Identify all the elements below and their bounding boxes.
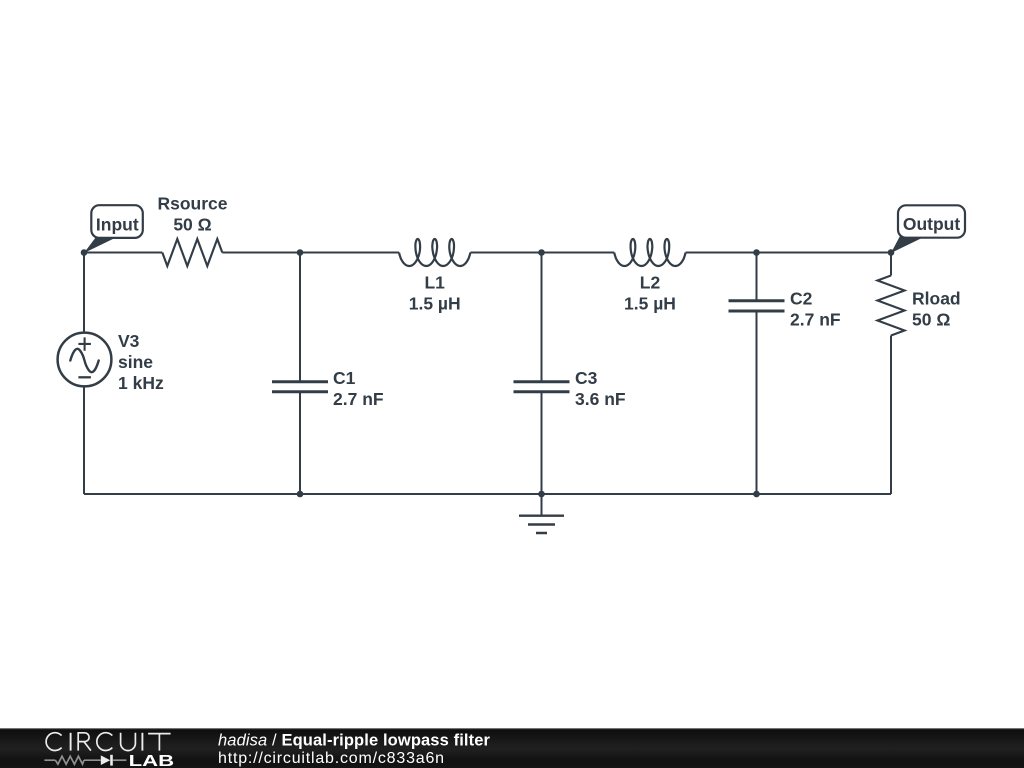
logo symbol wire right <box>113 759 127 761</box>
V3 minus sign <box>78 376 91 378</box>
logo letter U <box>121 733 136 751</box>
capacitor C2 bottom lead <box>756 311 758 494</box>
capacitor C2 top lead <box>756 253 758 301</box>
capacitor C1 bottom lead <box>299 392 301 494</box>
logo letter I2 <box>141 733 143 751</box>
capacitor C3 plates <box>514 382 570 392</box>
ground bars <box>519 516 564 533</box>
resistor Rsource <box>162 239 222 266</box>
node dot input <box>81 249 88 256</box>
wire: L2 to output node <box>686 252 891 254</box>
wire bottom rail <box>84 493 891 495</box>
wire: Rsource to node C1 <box>222 252 399 254</box>
resistor Rload top lead <box>890 253 892 276</box>
node dot C3 top <box>538 249 545 256</box>
node dot C2 bottom <box>753 491 760 498</box>
logo letter T <box>148 733 171 751</box>
logo letter C2 <box>97 733 112 751</box>
wire top: input node to Rsource <box>84 252 162 254</box>
capacitor C1 top lead <box>299 253 301 382</box>
logo CIRCUIT word: letter C <box>46 733 61 751</box>
logo symbol diode cathode bar <box>110 755 113 766</box>
node Input flag tail <box>84 237 117 253</box>
inductor L1 <box>399 239 470 266</box>
V3 plus sign <box>78 337 91 350</box>
capacitor C3 bottom lead <box>541 392 543 494</box>
logo letter I <box>70 733 72 751</box>
voltage source V3 circle <box>58 333 112 387</box>
logo symbol wire left <box>44 759 55 761</box>
svg-text:http://circuitlab.com/c833a6n: http://circuitlab.com/c833a6n <box>218 750 445 767</box>
node dot C3 bottom / ground <box>538 491 545 498</box>
node Output flag tail <box>891 236 926 253</box>
capacitor C2 plates <box>729 301 785 311</box>
logo symbol resistor zigzag <box>55 756 84 764</box>
node Output flag box <box>898 205 965 237</box>
capacitor C3 top lead <box>541 253 543 382</box>
resistor Rload bottom lead <box>890 336 892 495</box>
inductor L2 <box>614 239 685 266</box>
svg-text:hadisa / Equal-ripple lowpass: hadisa / Equal-ripple lowpass filter <box>218 732 491 750</box>
wire: L1 to node C3 <box>470 252 614 254</box>
node dot output <box>888 249 895 256</box>
node dot C1 bottom <box>297 491 304 498</box>
resistor Rload <box>878 276 905 336</box>
node dot C2 top <box>753 249 760 256</box>
logo symbol wire mid <box>84 759 101 761</box>
capacitor C1 plates <box>272 382 328 392</box>
footer bar <box>0 728 1024 768</box>
ground stub <box>541 494 543 516</box>
wire left vertical bottom: V3 to bottom rail <box>83 386 85 494</box>
wire left vertical top: input node to V3 <box>83 253 85 333</box>
node dot C1 top <box>297 249 304 256</box>
logo symbol diode triangle <box>101 755 111 765</box>
logo letter R <box>78 733 91 751</box>
node Input flag box <box>91 205 143 238</box>
svg-text:LAB: LAB <box>129 753 175 768</box>
V3 sine wave <box>70 349 98 372</box>
